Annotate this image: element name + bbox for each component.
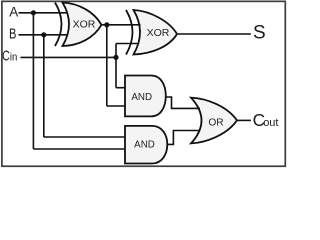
wire A to AND U4 lower input <box>33 148 125 150</box>
node B junction <box>41 32 46 37</box>
wire AND U4 output to OR <box>167 131 200 145</box>
svg-text:AND: AND <box>134 140 155 151</box>
wire Cin input <box>21 56 117 58</box>
node Cin junction <box>113 55 118 60</box>
wire XOR U2 output to S <box>177 33 251 35</box>
xor gate U2 body <box>134 10 178 55</box>
wire B branch vertical <box>43 35 45 137</box>
xor gate U1 extra input arc <box>55 3 62 47</box>
wire to AND U3 lower input <box>107 105 125 107</box>
xor gate U2 extra input arc <box>126 10 133 55</box>
wire XOR U1 output branch vertical <box>106 25 108 106</box>
svg-text:A: A <box>9 4 18 19</box>
and gate U3 <box>125 76 166 117</box>
wire Cin branch vertical <box>115 44 117 88</box>
wire AND U3 output to OR <box>166 97 200 108</box>
svg-text:AND: AND <box>131 92 152 103</box>
svg-text:B: B <box>9 26 16 42</box>
or gate U5 <box>191 98 237 144</box>
svg-text:S: S <box>253 22 266 43</box>
and gate U4 <box>125 126 167 164</box>
svg-text:out: out <box>263 117 278 129</box>
wire B input <box>19 34 68 36</box>
wire OR output to Cout <box>237 119 251 121</box>
node XOR U1 output junction <box>104 22 109 27</box>
wire Cin to AND U3 upper input <box>116 87 125 89</box>
wire B to AND U4 upper input <box>44 136 125 138</box>
border frame <box>2 1 285 166</box>
xor gate U1 body <box>63 3 102 47</box>
wire XOR U1 output to XOR U2 input <box>102 24 141 26</box>
svg-text:in: in <box>10 51 17 63</box>
node A junction <box>31 10 36 15</box>
wire Cin to XOR U2 lower input <box>116 43 139 45</box>
wire A input <box>19 12 68 14</box>
svg-text:XOR: XOR <box>147 27 170 39</box>
wire A branch vertical <box>32 13 34 149</box>
svg-text:XOR: XOR <box>73 19 96 31</box>
svg-text:C: C <box>2 47 10 64</box>
svg-text:OR: OR <box>208 117 223 128</box>
